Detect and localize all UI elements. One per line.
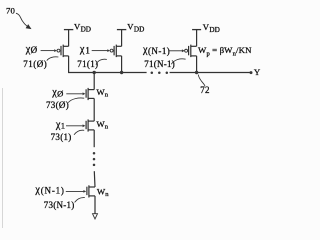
wire chi-(N-1) to PMOS3 gate with arrowhead	[169, 50, 182, 52]
svg-text:Wn: Wn	[96, 87, 108, 99]
svg-text:DD: DD	[134, 26, 144, 34]
PMOS transistor 2	[110, 45, 121, 58]
bus wire left segment	[68, 72, 147, 74]
leader 71(1) to PMOS2 gate	[96, 59, 107, 64]
svg-text:Y: Y	[254, 67, 261, 77]
svg-text:χ1: χ1	[79, 44, 91, 55]
junction node NMOS chain	[93, 71, 96, 74]
svg-text:χØ: χØ	[25, 44, 38, 55]
scan artifact line left edge	[2, 88, 4, 228]
svg-text:71(N-1): 71(N-1)	[144, 59, 175, 69]
ellipsis dots on chain	[93, 152, 96, 155]
bus wire right segment	[170, 72, 251, 74]
wire NMOS3 source down to ground	[94, 196, 96, 214]
svg-text:73(1): 73(1)	[51, 132, 72, 142]
wire VDD3 to PMOS3 drain	[196, 30, 198, 47]
wire VDD2 to PMOS2 drain	[121, 30, 123, 47]
wire bus to NMOS1	[93, 73, 95, 90]
NMOS transistor 3	[87, 185, 95, 197]
leader 73(1) to NMOS2 gate	[74, 130, 84, 135]
leader 73(0) to NMOS1 gate	[68, 98, 84, 103]
VDD rail 3	[192, 29, 201, 31]
svg-text:70: 70	[6, 5, 15, 15]
PMOS transistor 3	[185, 45, 197, 58]
wire NMOS1 to NMOS2	[93, 98, 95, 121]
wire chi-0 to PMOS1 gate with arrowhead	[41, 50, 55, 52]
svg-text:Wn: Wn	[97, 186, 109, 198]
svg-text:73(Ø): 73(Ø)	[46, 100, 69, 110]
leader 72 to junction	[198, 75, 205, 86]
svg-text:71(Ø): 71(Ø)	[23, 59, 47, 69]
NMOS transistor 2	[86, 119, 94, 131]
leader 71(0) to PMOS1 gate	[47, 57, 59, 61]
svg-text:χ(N-1): χ(N-1)	[142, 45, 170, 56]
VDD rail 2	[117, 29, 126, 31]
wire PMOS3 source down to bus	[196, 56, 198, 73]
wire VDD1 to PMOS1 drain	[68, 30, 70, 47]
svg-text:DD: DD	[209, 26, 219, 34]
ground arrow	[93, 214, 98, 219]
junction node PMOS3	[195, 71, 198, 74]
ellipsis dots on bus	[151, 71, 154, 74]
PMOS transistor 1	[57, 45, 69, 58]
wire chi-0 to NMOS1 gate with arrowhead	[66, 93, 83, 95]
svg-text:χØ: χØ	[51, 87, 63, 98]
wire PMOS1 source down to bus	[68, 56, 70, 73]
svg-text:73(N-1): 73(N-1)	[44, 200, 75, 210]
svg-text:Wn: Wn	[96, 119, 108, 131]
wire NMOS2 down to ellipsis	[93, 130, 95, 147]
svg-text:72: 72	[200, 85, 210, 95]
VDD rail 1	[64, 29, 73, 31]
NMOS transistor 1	[86, 88, 94, 100]
svg-text:χ1: χ1	[55, 120, 65, 131]
svg-text:Wp = βWn/KN: Wp = βWn/KN	[198, 45, 252, 58]
wire chi-(N-1) to NMOS3 gate with arrowhead	[66, 190, 84, 192]
output node dot Y	[250, 71, 253, 74]
svg-text:71(1): 71(1)	[77, 59, 98, 69]
leader arrow from 70	[16, 13, 27, 26]
wire chi-1 to NMOS2 gate with arrowhead	[66, 125, 83, 127]
leader 73(N-1) to NMOS3 gate	[75, 198, 85, 203]
svg-text:DD: DD	[81, 26, 91, 34]
leader 71(N-1) to PMOS3 gate	[171, 59, 185, 64]
svg-text:χ(N-1): χ(N-1)	[34, 184, 64, 195]
wire PMOS2 source down to bus	[121, 56, 123, 73]
wire ellipsis down to NMOS3	[93, 171, 96, 187]
wire chi-1 to PMOS2 gate with arrowhead	[92, 50, 108, 52]
junction node PMOS2	[120, 71, 123, 74]
